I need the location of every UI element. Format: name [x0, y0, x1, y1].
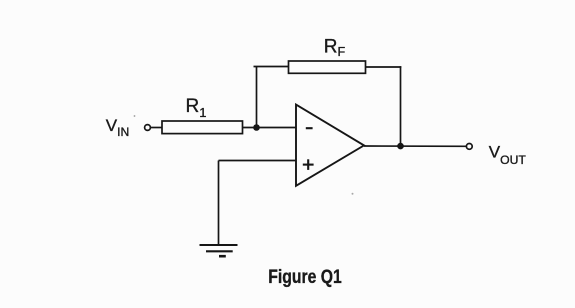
wire — [254, 66, 289, 68]
wire — [400, 66, 402, 146]
pin - (inverting input mark) — [306, 127, 313, 129]
wire — [219, 160, 297, 162]
node VIN terminal — [145, 125, 151, 131]
op-amp U1 — [296, 105, 364, 186]
resistor R1 — [162, 121, 243, 134]
wire — [243, 127, 297, 129]
wire — [256, 67, 258, 128]
wire — [366, 66, 402, 68]
speck artifact — [352, 193, 354, 195]
wire — [364, 145, 466, 147]
wire — [218, 161, 220, 246]
wire — [151, 127, 162, 129]
svg-text:Figure Q1: Figure Q1 — [268, 267, 342, 288]
pin + (non-inverting input mark) — [303, 159, 314, 170]
ground — [200, 245, 238, 256]
node A (inverting input junction) — [253, 124, 260, 131]
speck artifact — [134, 115, 136, 117]
node VOUT terminal — [466, 144, 472, 150]
node B (output junction) — [397, 143, 404, 150]
resistor RF — [289, 61, 366, 73]
